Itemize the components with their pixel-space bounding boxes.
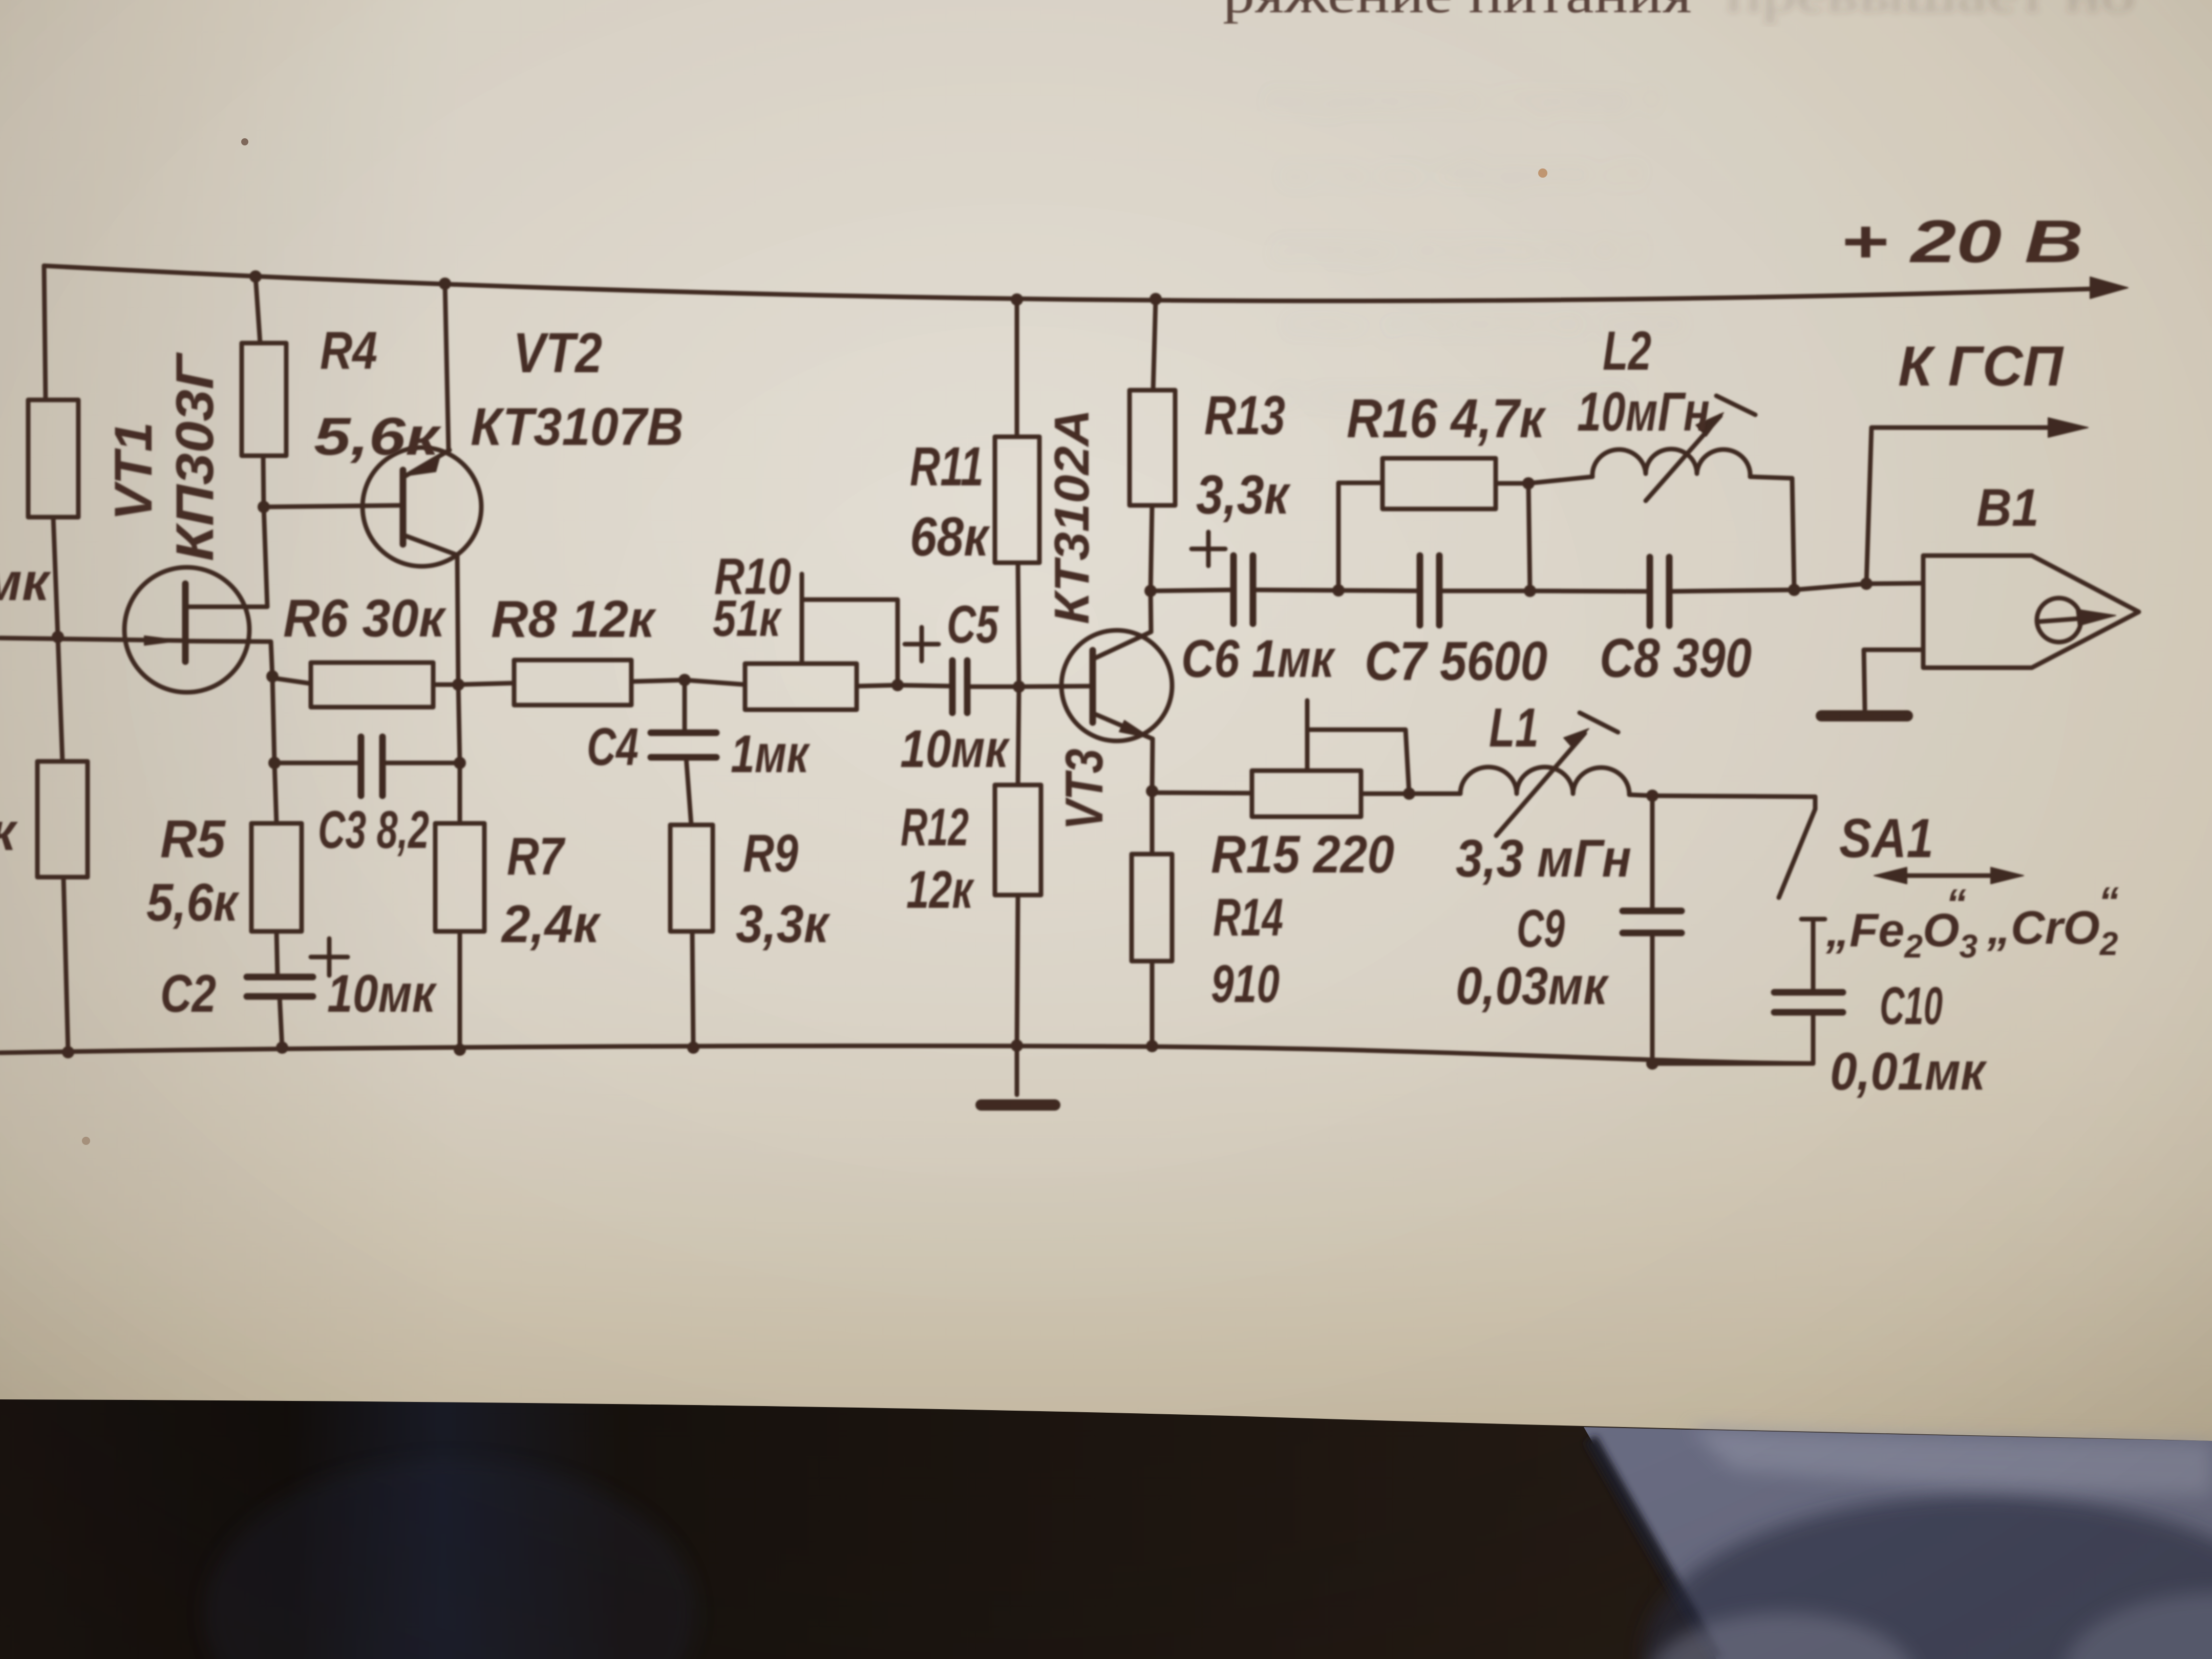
wire C6 left <box>1151 590 1233 591</box>
wire C3 right <box>382 761 460 765</box>
wire C6 right <box>1253 590 1338 590</box>
node L2 right / C8 right <box>1788 584 1800 596</box>
wire R14 top <box>1150 793 1155 854</box>
resistor R15 <box>1252 771 1361 817</box>
label L1 <box>1489 696 1539 758</box>
transistor VT1 channel <box>182 584 189 662</box>
wire C9 bottom <box>1650 933 1655 1064</box>
node bus C2 <box>276 1041 288 1054</box>
label R7 value <box>501 895 601 954</box>
label L2 value <box>1577 380 1710 442</box>
node bus R7 <box>454 1044 466 1056</box>
transistor VT3 circle <box>1061 630 1172 741</box>
R10 trimmer tap <box>802 574 898 685</box>
wire R13 top <box>1153 299 1156 390</box>
wire left column top <box>44 266 46 400</box>
wire C2 bottom <box>280 996 282 1048</box>
wire L2 right <box>1750 477 1794 590</box>
label R11 <box>910 435 984 497</box>
VT3 emitter arrow <box>1119 720 1152 738</box>
label C4 <box>587 717 639 777</box>
wire C10 bottom <box>1652 1012 1813 1064</box>
node bus VT3 <box>1146 1040 1158 1052</box>
L1 adjust arrow <box>1496 713 1618 836</box>
label R14 value <box>1211 954 1280 1014</box>
wire L1 right <box>1629 795 1652 796</box>
node rail-R4 <box>249 270 262 283</box>
wire L1 left <box>1409 792 1460 796</box>
wire C4 top <box>683 680 687 733</box>
wire R12 top <box>1018 687 1019 785</box>
C2 plus sign <box>311 939 348 975</box>
label R7 <box>507 827 565 886</box>
wire R8 right lead <box>631 680 685 682</box>
wire R16 right lead <box>1496 481 1528 486</box>
wire R12 bottom <box>1017 895 1018 1046</box>
node R8-R10-C4 <box>678 674 691 686</box>
capacitor C3 <box>361 737 382 796</box>
node R6 right / VT2 collector <box>452 678 464 691</box>
wire R5 bottom <box>276 931 278 977</box>
wire C3 left <box>274 761 361 765</box>
label R9 value <box>736 895 831 954</box>
label R4 <box>320 321 377 380</box>
label C7 value <box>1365 630 1547 692</box>
label C10 value <box>1830 1042 1987 1101</box>
resistor R9 <box>670 825 713 931</box>
transistor VT3 base bar <box>1090 650 1096 722</box>
label +20V <box>1840 208 2083 275</box>
label R6 value <box>283 589 446 648</box>
paper speck 3 <box>82 1137 90 1145</box>
VT2 emitter diagonal <box>405 450 450 476</box>
wire VT2 collector down <box>457 555 458 685</box>
C5 plus sign <box>905 627 939 661</box>
capacitor C6 <box>1233 556 1253 624</box>
resistor R8 <box>514 660 631 705</box>
label R11 value <box>910 505 991 567</box>
wire R10 right lead <box>857 685 898 686</box>
capacitor C9 <box>1623 911 1682 933</box>
node C7 right / C8 left <box>1524 585 1536 597</box>
VT3 collector diagonal <box>1094 632 1151 658</box>
wire VT3 collector up <box>1151 591 1151 632</box>
node R10 right / C5 left <box>891 679 904 691</box>
wire SA1 feed <box>1652 796 1815 797</box>
SA1 double arrow <box>1874 867 2024 884</box>
wire ground bus <box>0 1046 1813 1064</box>
VT2 emitter arrow <box>407 458 439 476</box>
node C6 right / R16 bracket <box>1332 584 1345 597</box>
+20V rail arrowhead <box>2090 277 2128 299</box>
node bus R12 <box>1011 1039 1023 1052</box>
resistor R13 <box>1130 390 1175 505</box>
inductor L1 <box>1460 767 1629 795</box>
wire VT2 collector to C3 node <box>458 685 460 763</box>
wire R6 left lead <box>272 678 311 684</box>
label R5 value <box>146 873 240 932</box>
node R15 right / L1 left <box>1403 788 1415 800</box>
resistor left-upper (cut off) <box>28 400 78 517</box>
wire VT3 emitter down <box>1152 739 1153 791</box>
label C2 <box>160 964 216 1024</box>
label R10 <box>714 548 791 605</box>
label CrO2 <box>1987 879 2119 962</box>
capacitor C10 <box>1774 992 1843 1012</box>
resistor left-lower (cut off) <box>37 761 88 877</box>
B1 inner circle <box>2037 598 2081 642</box>
capacitor C2 <box>247 977 313 996</box>
paper speck 1 <box>241 138 248 145</box>
wire +20V rail <box>44 266 2094 301</box>
node bus left column <box>62 1046 74 1058</box>
wire C5 right <box>967 685 1019 689</box>
wire R7 bottom <box>458 931 462 1050</box>
dark table band below page <box>0 1399 2212 1659</box>
resistor R16 <box>1382 458 1496 509</box>
label VT2 type <box>471 397 684 457</box>
resistor R14 <box>1132 854 1172 961</box>
capacitor C7 <box>1420 556 1439 625</box>
label C3 value <box>318 800 429 860</box>
label C5 <box>947 595 999 654</box>
resistor R6 <box>311 663 433 707</box>
wire R4 bottom <box>263 456 264 507</box>
node rail-R13 <box>1150 293 1162 305</box>
paper speck 2 <box>1538 168 1547 178</box>
wire R4 top <box>256 276 260 343</box>
label SA1 <box>1839 807 1933 869</box>
label VT3 type (rotated) <box>1045 409 1099 624</box>
label C8 value <box>1600 627 1752 689</box>
resistor R10 <box>745 664 857 710</box>
label R16 value <box>1347 387 1547 449</box>
label R4 value <box>314 407 441 466</box>
label VT2 <box>513 322 602 385</box>
resistor R11 <box>995 437 1039 563</box>
node bus C9 <box>1646 1057 1658 1070</box>
C6 plus sign <box>1192 532 1225 566</box>
ground bar center <box>981 1099 1055 1111</box>
label L2 <box>1603 320 1651 381</box>
wire VT1 gate <box>0 638 181 641</box>
label R8 value <box>491 590 656 648</box>
wire C9 top <box>1650 796 1655 911</box>
wire C5 left <box>898 685 952 686</box>
resistor R4 <box>242 343 286 456</box>
wire VT1 source down <box>272 676 274 763</box>
label R5 <box>160 810 226 869</box>
switch SA1 arm <box>1779 797 1815 898</box>
wire left column to bus <box>63 877 68 1052</box>
capacitor C5 <box>952 661 967 713</box>
label VT1 type (rotated) <box>165 352 225 561</box>
blue-gray surface bottom right <box>1584 1427 2212 1659</box>
resistor R7 <box>435 823 484 931</box>
label VT1 (rotated) <box>104 422 163 521</box>
wire R11 bottom <box>1018 563 1019 687</box>
label VT3 (rotated) <box>1055 749 1114 830</box>
node rail-R11 <box>1011 293 1023 306</box>
node VT1 source / R6 left <box>266 670 279 683</box>
wire R7 top <box>458 763 462 823</box>
R15 trimmer tap <box>1307 700 1409 794</box>
label C9 <box>1517 899 1565 959</box>
ground bar B1 <box>1821 710 1907 721</box>
node VT1 drain / VT2 base <box>258 501 270 513</box>
head B1 <box>1923 556 2139 668</box>
node GSP branch <box>1860 578 1873 590</box>
wire R10 left lead <box>685 680 745 685</box>
node R16 right / L2 left <box>1522 477 1535 490</box>
wire C4 to R9 <box>686 757 691 825</box>
wire R15 right lead <box>1361 792 1409 796</box>
node L1 right / C9 / SA1 <box>1646 790 1658 802</box>
ground stub center <box>1015 1046 1019 1095</box>
L2 adjust arrow <box>1646 396 1755 501</box>
wire left column lower <box>58 637 62 761</box>
wire VT1 drain lead <box>188 507 267 607</box>
label R13 value <box>1196 463 1291 525</box>
wire C8 right segment <box>1669 590 1794 591</box>
wire R8 left lead <box>458 683 514 685</box>
label R10 value <box>713 590 782 647</box>
wire R6 right lead <box>433 683 458 687</box>
label C4 value <box>731 725 810 784</box>
wire GSP branch <box>1866 428 2070 584</box>
wire R9 bottom <box>692 931 693 1048</box>
label C2 value <box>327 964 437 1024</box>
VT1 gate arrow <box>144 636 180 645</box>
VT2 collector diagonal <box>405 536 457 555</box>
transistor VT1 circle <box>124 567 249 692</box>
inductor L2 <box>1592 449 1750 477</box>
resistor R5 <box>251 823 302 931</box>
wire left column mid <box>53 517 58 637</box>
label K GSP <box>1898 335 2064 398</box>
GSP arrowhead <box>2048 418 2088 437</box>
wire R13 bottom <box>1151 505 1152 591</box>
node VT3 collector / R13 / C6 <box>1144 585 1157 597</box>
wire R5 top <box>274 763 276 823</box>
label R12 value <box>906 860 974 920</box>
wire to B1 <box>1794 584 1866 590</box>
label C10 <box>1880 976 1943 1036</box>
wire B1 ground stub <box>1864 650 1923 709</box>
node R11-R12-VT3 base <box>1013 680 1025 693</box>
node gate junction <box>52 631 64 643</box>
node C3 left <box>268 757 281 769</box>
label L1 value <box>1456 829 1631 888</box>
wire VT1 source lead <box>185 641 272 676</box>
SA1 lower contact <box>1801 919 1825 992</box>
wire VT3 base lead <box>1019 686 1090 687</box>
label R15 value <box>1211 825 1394 884</box>
label R12 <box>901 798 969 857</box>
label Fe2O3 <box>1825 881 1977 965</box>
node C3 right <box>454 757 466 769</box>
wire VT2 base lead <box>264 505 400 507</box>
printed page text top <box>1223 0 2135 24</box>
wire R11 top <box>1015 300 1019 437</box>
label C5 value <box>900 719 1010 779</box>
wire B1 entry <box>1866 583 1923 584</box>
label C9 value <box>1456 956 1609 1016</box>
node VT3 emitter / R14 / R15 <box>1146 785 1158 797</box>
wire C8 left segment <box>1530 591 1650 591</box>
wire R15 left lead <box>1152 793 1252 793</box>
node rail-VT2 emitter <box>439 278 451 290</box>
wire C7 right segment <box>1439 589 1530 593</box>
transistor VT2 circle <box>363 448 481 566</box>
capacitor C8 <box>1650 557 1669 626</box>
wire C7 left segment <box>1338 590 1420 591</box>
label C6 value <box>1181 629 1336 689</box>
label B1 <box>1976 478 2039 538</box>
wire VT2 emitter up <box>445 284 449 450</box>
R16 left bracket <box>1338 483 1382 590</box>
label R13 <box>1204 384 1285 446</box>
wire R14 bottom <box>1150 961 1155 1046</box>
B1 inner arrow <box>2039 609 2116 626</box>
transistor VT2 base bar <box>400 470 407 544</box>
label R value cut <box>0 802 18 862</box>
VT3 emitter diagonal <box>1094 714 1153 739</box>
node bus R9 <box>687 1041 699 1054</box>
resistor R12 <box>995 785 1041 895</box>
label R9 <box>743 824 798 883</box>
capacitor C4 <box>651 733 716 757</box>
wire L2 left <box>1528 477 1592 483</box>
R16 right bracket down <box>1528 483 1530 591</box>
label C1 value cut <box>0 552 51 612</box>
show-through ghost text <box>1265 71 1686 420</box>
label R14 <box>1213 888 1283 947</box>
